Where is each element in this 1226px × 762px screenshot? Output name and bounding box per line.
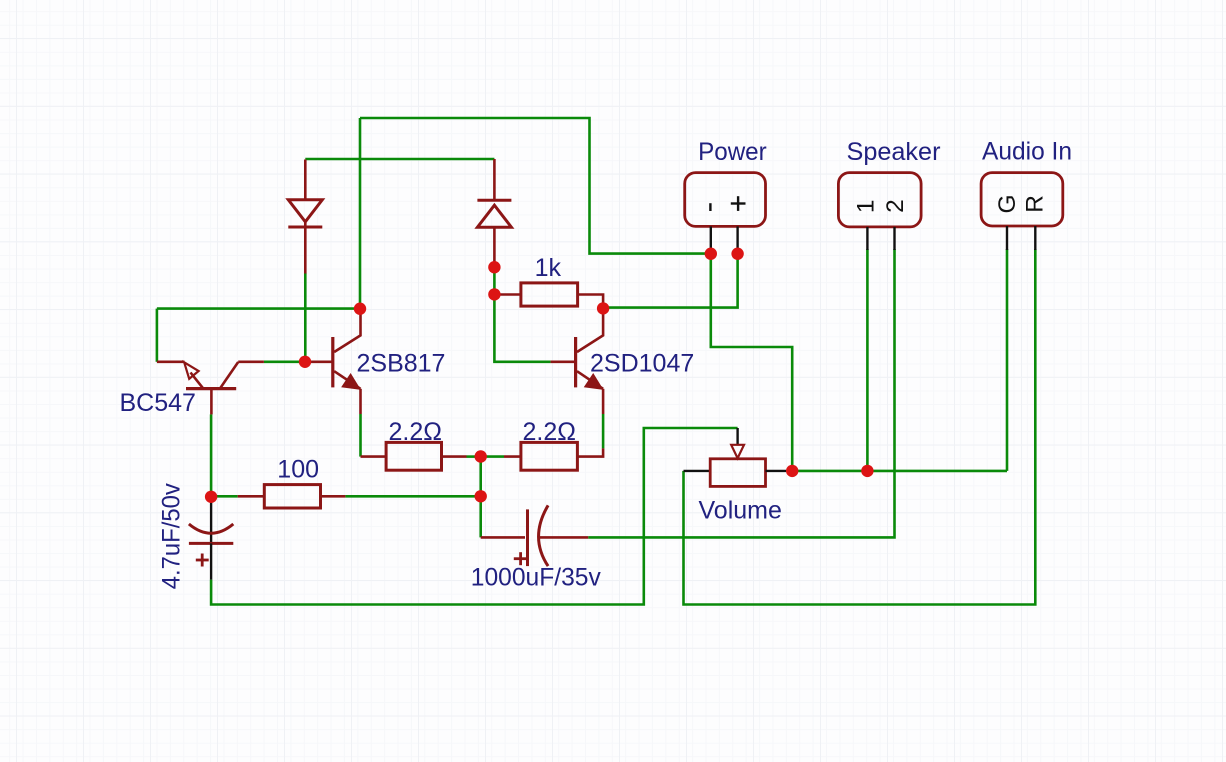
svg-text:BC547: BC547 bbox=[120, 389, 196, 417]
junction at R100 right bbox=[475, 490, 487, 502]
wire bottom left to wiper bbox=[211, 428, 738, 605]
wire speaker pin 1 drop bbox=[866, 249, 869, 471]
svg-text:1k: 1k bbox=[535, 254, 562, 282]
pin R of Audio In bbox=[1034, 226, 1036, 250]
junction below diode D2 bbox=[488, 261, 500, 273]
wire left feedback drop bbox=[156, 309, 159, 362]
pin G of Audio In bbox=[1006, 226, 1008, 250]
diode D2 bbox=[477, 159, 511, 262]
pin 1 of Speaker bbox=[866, 227, 868, 250]
wire 1k node to 2SD1047 base bbox=[494, 294, 550, 361]
svg-text:2: 2 bbox=[882, 199, 909, 213]
junction at R100 left bbox=[205, 491, 217, 503]
svg-text:R: R bbox=[1022, 195, 1049, 213]
svg-text:Volume: Volume bbox=[699, 497, 782, 525]
pin label minus bbox=[709, 203, 711, 211]
svg-text:2SB817: 2SB817 bbox=[357, 349, 446, 377]
junction at 2SB817 collector bbox=[354, 303, 366, 315]
svg-text:Speaker: Speaker bbox=[847, 138, 941, 166]
resistor 2.2ohm right bbox=[481, 442, 603, 470]
wire ground rail bbox=[792, 470, 1007, 473]
junction between 2.2ohm resistors bbox=[475, 450, 487, 462]
wire speaker pin 2 drop bbox=[588, 249, 894, 537]
junction at power minus bbox=[705, 248, 717, 260]
junction at 2SB817 base bbox=[299, 356, 311, 368]
wire BC547 base drop bbox=[210, 414, 213, 496]
wire top rail bbox=[360, 118, 711, 254]
junction at power plus bbox=[731, 248, 743, 260]
svg-text:2SD1047: 2SD1047 bbox=[590, 349, 694, 377]
resistor 2.2ohm left bbox=[361, 442, 481, 470]
pin 2 of Speaker bbox=[893, 227, 895, 250]
wire power plus to 1k bbox=[603, 254, 738, 308]
pin label plus bbox=[731, 196, 746, 211]
transistor Q2 2SB817 bbox=[305, 312, 361, 414]
connector J2 Speaker bbox=[838, 173, 921, 227]
wire diode1 lower bbox=[304, 273, 307, 362]
resistor 100 bbox=[238, 485, 346, 508]
svg-text:2.2Ω: 2.2Ω bbox=[523, 418, 576, 446]
wire audio G pin drop bbox=[1006, 249, 1009, 471]
wire left feedback horizontal bbox=[157, 307, 360, 310]
svg-text:Audio In: Audio In bbox=[982, 138, 1072, 166]
wire power minus to pot right bbox=[711, 254, 792, 471]
svg-text:Power: Power bbox=[698, 138, 767, 166]
wire diode2 to 1k node bbox=[493, 267, 496, 294]
junction at speaker 1 bbox=[861, 465, 873, 477]
svg-text:G: G bbox=[994, 194, 1021, 213]
capacitor C2 1000uF/35v bbox=[481, 505, 589, 566]
wire R100 right link bbox=[345, 495, 480, 498]
wire pot left to audio R bbox=[684, 249, 1036, 605]
svg-text:4.7uF/50v: 4.7uF/50v bbox=[157, 483, 185, 589]
pin plus of Power bbox=[736, 226, 738, 253]
wire BC547 collector link bbox=[264, 360, 305, 363]
resistor 1k bbox=[494, 283, 603, 306]
svg-text:100: 100 bbox=[277, 456, 319, 484]
capacitor C1 4.7uF/50v bbox=[189, 497, 233, 580]
transistor Q3 2SD1047 bbox=[551, 312, 604, 414]
junction at 1k left bbox=[488, 288, 500, 300]
diode D1 bbox=[288, 160, 322, 274]
svg-text:1000uF/35v: 1000uF/35v bbox=[471, 564, 601, 592]
pin minus of Power bbox=[710, 226, 712, 253]
wire 2SD1047 emitter lower bbox=[602, 414, 605, 448]
potentiometer Volume bbox=[684, 428, 787, 486]
wire node to 1000uF bbox=[479, 496, 482, 537]
wire 2.2 node drop bbox=[479, 457, 482, 497]
svg-text:2.2Ω: 2.2Ω bbox=[389, 418, 442, 446]
svg-text:1: 1 bbox=[852, 199, 879, 213]
junction at pot right bbox=[786, 465, 798, 477]
wire node to R100 left bbox=[211, 495, 238, 498]
wire diode top link bbox=[305, 158, 494, 161]
transistor Q1 BC547 bbox=[157, 362, 264, 415]
connector J1 Power bbox=[685, 173, 766, 227]
wire top rail left drop bbox=[359, 118, 362, 309]
wire 2SB817 emitter lower bbox=[359, 414, 362, 457]
junction at 1k right bbox=[597, 302, 609, 314]
connector J3 Audio In bbox=[981, 173, 1063, 226]
